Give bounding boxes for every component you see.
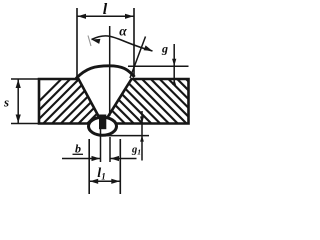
- svg-text:g: g: [161, 41, 168, 55]
- svg-text:s: s: [3, 95, 9, 110]
- svg-text:b: b: [75, 142, 81, 156]
- svg-text:α: α: [119, 24, 127, 39]
- svg-text:l: l: [103, 1, 108, 18]
